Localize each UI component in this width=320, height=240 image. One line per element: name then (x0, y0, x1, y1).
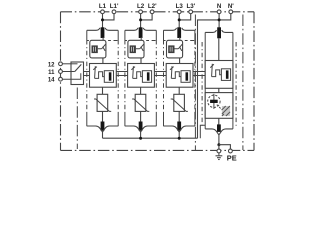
N trigger surge arrow (210, 64, 214, 77)
disconnector indicator block module 2 (130, 45, 136, 53)
module 1 top edge (dash-dot) (87, 40, 118, 42)
label L3' (186, 3, 195, 10)
N-PE gas discharge tube box (205, 93, 233, 119)
module 1 left side wire (top) (86, 30, 88, 40)
N-PE spark gap upper horn electrodes (205, 30, 233, 32)
svg-text:L3: L3 (176, 3, 184, 10)
wire cup to PE bus module 2 (140, 132, 142, 139)
N-PE spark gap lower cup electrode (205, 129, 233, 135)
trigger inner box module 1 (104, 71, 113, 83)
module 1 right side (dash-dot) (117, 40, 119, 113)
svg-text:L3': L3' (186, 3, 195, 10)
N module left side (dash-dot) (201, 42, 203, 127)
module 2 right side (dash-dot) (155, 40, 157, 113)
wire terminal 11 to contact (62, 71, 74, 73)
enclosure border right (dash-dot) (253, 12, 255, 151)
svg-text:PE: PE (227, 153, 237, 162)
earth terminal (217, 149, 221, 153)
PE terminal (229, 149, 233, 153)
svg-text:12: 12 (48, 62, 55, 68)
N module right side (dash-dot) (235, 42, 237, 127)
label N' (228, 3, 234, 10)
spark gap F1 lower electrode rod (101, 122, 105, 131)
spark gap F2 lower cup electrode (125, 126, 156, 132)
N-PE spark gap upper electrode rod (217, 27, 221, 38)
wire L2' terminal to junction (141, 14, 153, 20)
spark gap F2 lower electrode rod (139, 122, 143, 131)
wire trigger box to varistor module 1 (102, 87, 104, 94)
N trigger pulse step (212, 70, 222, 77)
module 2 right side wire (bottom) (155, 113, 157, 126)
label L2 (137, 3, 145, 10)
wire terminal 14 to contact (62, 73, 80, 79)
spark gap F1 upper horn electrodes (87, 28, 118, 30)
wire N cup to PE node (218, 135, 220, 145)
wire rod to disconnector box module 2 (140, 37, 142, 41)
spark gap F1 upper electrode rod (101, 27, 105, 38)
label L1 (99, 3, 107, 10)
module 1 right side wire (top) (117, 30, 119, 40)
trigger inner box module 3 (181, 71, 190, 83)
spark gap F3 lower electrode rod (177, 122, 181, 131)
label L1' (110, 3, 119, 10)
wire PE node to earth terminal (218, 145, 220, 150)
label PE (227, 153, 237, 162)
trigger inner box module 2 (142, 71, 151, 83)
svg-text:11: 11 (48, 70, 55, 76)
trigger coupling lines signalling to module 1 (84, 72, 90, 76)
N trigger circuit box (205, 61, 233, 89)
disconnector switch contact module 2 (136, 44, 144, 51)
spark gap F1 lower cup electrode (87, 126, 118, 132)
bus junction node under L2 (139, 137, 142, 140)
disconnector switch contact module 1 (98, 44, 106, 51)
trigger pulse step module 3 (171, 72, 181, 79)
disconnector box module 2 (128, 40, 144, 58)
label L3 (176, 3, 184, 10)
trigger coupling lines module 3 to N (193, 72, 205, 76)
wire disconnector to trigger box module 3 (179, 58, 181, 64)
wire rod to disconnector box module 3 (179, 37, 181, 41)
wire L3 terminal to junction (178, 14, 180, 28)
disconnector box module 1 (90, 40, 106, 58)
disconnector indicator block module 3 (168, 45, 174, 53)
module 1 left side (dash-dot) (86, 40, 88, 113)
terminal 11 (59, 70, 63, 74)
module 2 left side wire (top) (124, 30, 126, 40)
module 1 left side wire (bottom) (86, 113, 88, 126)
trigger circuit box module 3 (166, 64, 193, 88)
module 3 top edge (dash-dot) (164, 40, 195, 42)
wire trigger box to varistor module 3 (178, 87, 180, 94)
enclosure border left (dash-dot) (60, 12, 62, 151)
spark gap F2 upper horn electrodes (125, 28, 156, 30)
svg-text:N: N (217, 3, 222, 10)
module 3 left side wire (bottom) (163, 113, 165, 126)
svg-text:14: 14 (48, 78, 55, 84)
enclosure border bottom (dash-dot) (61, 149, 255, 151)
signalling section separator (dash-dot) (76, 88, 78, 150)
wire L2 terminal to junction (140, 14, 142, 28)
label N (217, 3, 222, 10)
wire trigger box to varistor module 2 (140, 87, 142, 94)
spark gap F3 upper horn electrodes (164, 28, 195, 30)
trigger coupling lines module 2 to 3 (154, 72, 166, 76)
trigger circuit box module 1 (90, 64, 117, 88)
wire varistor to lower electrode module 2 (140, 111, 142, 122)
label L2' (148, 3, 157, 10)
changeover contact blade (75, 64, 82, 71)
module 2 top edge (dash-dot) (125, 40, 156, 42)
svg-text:N': N' (228, 3, 234, 10)
trigger coupling lines module 1 to 2 (116, 72, 127, 76)
terminal 14 (59, 77, 63, 81)
PE junction node (217, 143, 220, 146)
module 2 left side (dash-dot) (124, 40, 126, 113)
varistor module 1 (94, 94, 111, 111)
hatched earth block (222, 106, 230, 116)
N-PE spark gap lower electrode rod (217, 124, 221, 131)
terminal L3 (177, 10, 181, 14)
enclosure border top (dash-dot) (61, 11, 255, 13)
N trigger inner box (221, 69, 230, 81)
varistor module 3 (171, 94, 188, 111)
terminal L2' (150, 10, 154, 14)
junction node L1/L1' (101, 18, 104, 21)
spark gap F2 upper electrode rod (139, 27, 143, 38)
wire L3' terminal to junction (179, 14, 191, 20)
junction node L3/L3' (178, 18, 181, 21)
N module right separator (dash-dot) (242, 15, 244, 151)
wire disconnector to trigger box module 2 (140, 58, 142, 64)
wire disconnector to trigger box module 1 (102, 58, 104, 64)
N module left side wire (204, 32, 206, 128)
module 3 right side wire (top) (194, 30, 196, 40)
N module right side wire (232, 32, 234, 128)
spark gap F3 lower cup electrode (164, 126, 195, 132)
terminal 12 (59, 62, 63, 66)
wire gas discharge box to lower electrode (218, 118, 220, 125)
ground symbol (216, 153, 223, 160)
wire cup to PE bus module 3 (178, 132, 180, 139)
wire L1 terminal to junction (102, 14, 104, 28)
module 3 left side wire (top) (163, 30, 165, 40)
wire terminal 12 to contact (62, 63, 77, 65)
terminal N (217, 10, 221, 14)
terminal L2 (139, 10, 143, 14)
riser bus to N gap housing (200, 125, 205, 138)
trigger circuit box module 2 (128, 64, 155, 88)
module 3 right side (dash-dot) (194, 40, 196, 113)
terminal L1 (101, 10, 105, 14)
gas discharge tube symbol (208, 94, 220, 109)
trigger pulse step module 2 (133, 72, 143, 79)
module 1 right side wire (bottom) (117, 113, 119, 126)
wire N junction to bus (198, 20, 220, 138)
svg-text:L1': L1' (110, 3, 119, 10)
module 2 left side wire (bottom) (124, 113, 126, 126)
terminal L3' (189, 10, 193, 14)
wire L1' terminal to junction (103, 14, 115, 20)
wire N' terminal to junction (219, 14, 231, 20)
svg-text:L2': L2' (148, 3, 157, 10)
wire N trigger box to gas discharge box (218, 88, 220, 92)
isolating spark gap arrow (dashed) (217, 105, 222, 110)
trigger pulse step module 1 (95, 72, 105, 79)
svg-text:L1: L1 (99, 3, 107, 10)
trigger surge arrow module 3 (170, 66, 174, 78)
wire rod to disconnector box module 1 (102, 37, 104, 41)
disconnector indicator block module 1 (92, 45, 98, 53)
trigger surge arrow module 1 (93, 66, 97, 78)
label 14 (48, 78, 55, 84)
spark gap F3 upper electrode rod (177, 27, 181, 38)
svg-text:L2: L2 (137, 3, 145, 10)
remote signalling contact box (71, 62, 84, 85)
wire varistor to lower electrode module 1 (102, 111, 104, 122)
wire N rod to trigger box (218, 38, 220, 60)
terminal L1' (112, 10, 116, 14)
wire N terminal to junction (218, 14, 220, 28)
label 11 (48, 70, 55, 76)
module 2 right side wire (top) (155, 30, 157, 40)
varistor module 2 (132, 94, 149, 111)
junction node L2/L2' (139, 18, 142, 21)
PE collecting bus (103, 137, 198, 139)
module 3 left side (dash-dot) (163, 40, 165, 113)
junction node N/N' (218, 18, 221, 21)
bus junction node under L3 (178, 137, 181, 140)
terminal N' (229, 10, 233, 14)
wire cup to PE bus module 1 (102, 132, 104, 139)
module 3 right side wire (bottom) (194, 113, 196, 126)
disconnector box module 3 (167, 40, 183, 58)
disconnector switch contact module 3 (175, 44, 183, 51)
wire PE node to PE terminal (219, 145, 231, 150)
wire varistor to lower electrode module 3 (178, 111, 180, 122)
trigger surge arrow module 2 (131, 66, 135, 78)
label 12 (48, 62, 55, 68)
L3/N module separator (dash-dot) (194, 15, 196, 151)
